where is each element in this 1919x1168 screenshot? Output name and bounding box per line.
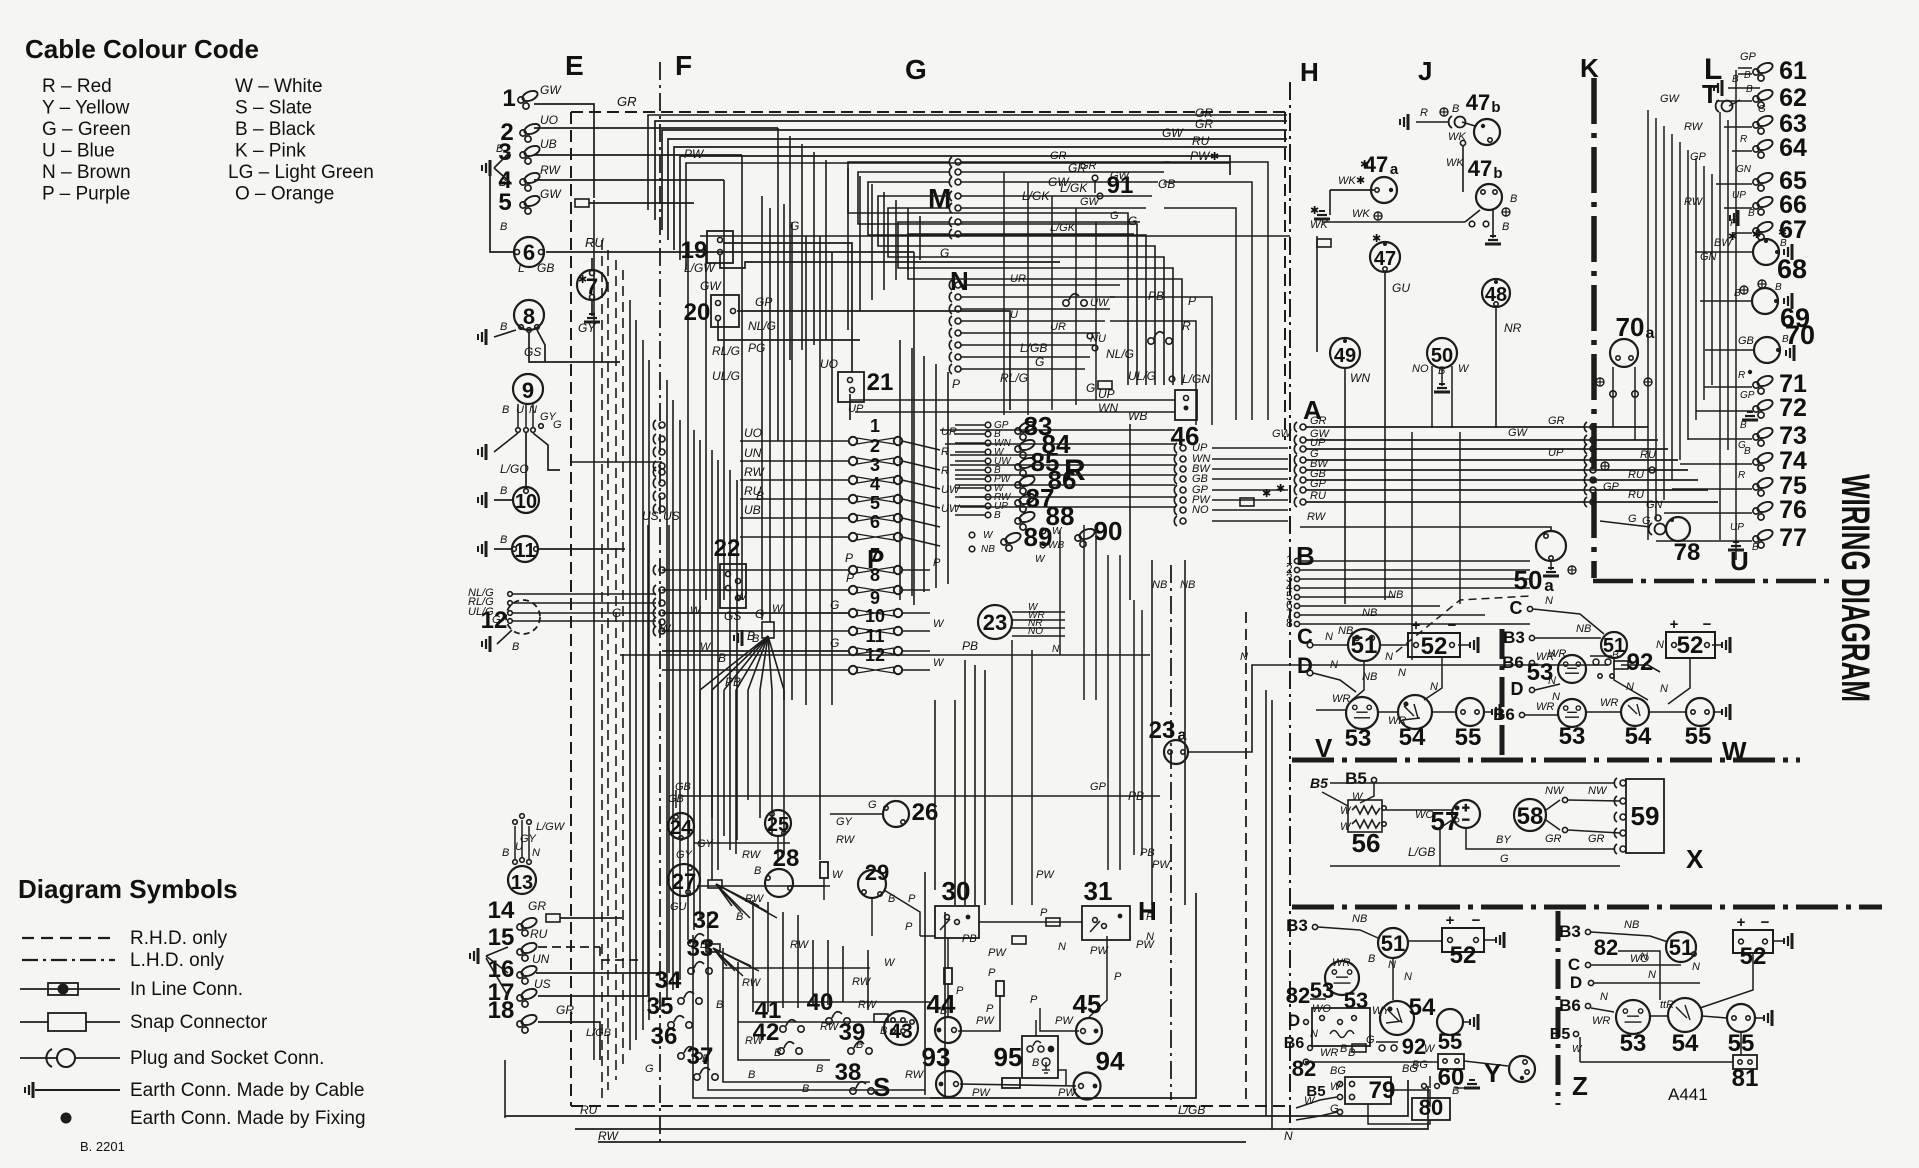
wire P row 2 right [902,461,940,470]
pin 22 a [726,572,731,577]
wire 47a WK left [1330,189,1374,191]
wire N row 3 [961,308,1110,310]
svg-text:RW: RW [858,999,878,1011]
svg-text:R.H.D. only: R.H.D. only [130,928,228,949]
wire M row 1 staircase [848,162,1128,385]
svg-text:B: B [1612,650,1619,661]
svg-text:32: 32 [693,907,720,934]
pin 6 left [515,250,520,255]
svg-text:PB: PB [962,933,977,945]
svg-text:44: 44 [927,989,956,1019]
pin hornY c [1520,1076,1524,1080]
wire G long 462 [571,461,662,463]
wire A bus G cont [1596,459,1678,461]
connector N row 6 [949,340,961,350]
legend symbol snap connector [48,1013,86,1031]
wire M row 5 [961,207,1146,209]
wire 30 lever [940,919,950,930]
connector 4 [520,171,541,191]
legend symbol snap conn wire [20,1021,120,1023]
pin 49 top [1343,339,1347,343]
wire 31 lever [1090,921,1100,932]
motor 28 [765,869,793,897]
wire bottom bus 1 [505,1080,1408,1116]
pin 8 a [519,325,524,330]
wire lamp 74 feed [1738,463,1752,465]
wire RU bus top [674,147,1287,250]
bulb 95 [1042,1058,1050,1073]
svg-text:30: 30 [942,876,971,906]
svg-text:Earth Conn. Made by Cable: Earth Conn. Made by Cable [130,1080,364,1101]
motor 24 [668,813,694,839]
regulator 54 Z [1668,998,1702,1032]
wire fan drop 7 [783,690,785,854]
wire H-feed vertical 7 [1133,600,1135,855]
wire 56 to 57 [1386,809,1452,811]
svg-text:GP: GP [1740,390,1755,401]
lamp 67 [1753,220,1774,240]
pin 47b2 a [1481,190,1485,194]
wire B5X down [1360,783,1374,803]
connector 46 bus BW [1174,464,1186,474]
svg-text:21: 21 [867,369,894,396]
pin 12 UL/G [508,611,513,616]
wire staircase vertical 7 [871,184,873,300]
svg-text:54: 54 [1399,724,1426,751]
wire A bus RU cont [1596,501,1718,503]
svg-text:LG – Light Green: LG – Light Green [228,162,374,183]
svg-text:L/GB: L/GB [1178,1103,1205,1117]
wire staircase vertical b 2 [907,208,909,270]
svg-text:55: 55 [1455,724,1482,751]
pin R bank 7 [985,485,991,491]
wire P row 10 left [662,630,849,632]
svg-text:L/GK: L/GK [1022,189,1050,203]
pin 50a bottom [1549,556,1553,560]
svg-text:✱: ✱ [1752,229,1761,241]
connector 89 [1001,531,1022,551]
svg-text:NO: NO [1192,504,1209,516]
wire GR2 bus top [662,130,1287,230]
pin 7 top [590,271,595,276]
svg-text:L/GB: L/GB [1020,341,1047,355]
svg-text:U – Blue: U – Blue [42,141,115,162]
svg-text:3: 3 [870,455,880,475]
connector M row 5 [949,203,961,213]
svg-text:R: R [1740,134,1747,145]
wire vertical bundle 16 [711,450,713,880]
wire comp19 out [723,243,852,372]
connector M row 4 [949,191,961,201]
svg-text:P: P [908,893,916,905]
svg-text:A441: A441 [1668,1085,1708,1104]
wire PB long [620,654,1150,656]
earth T [1714,80,1722,96]
svg-text:Y – Yellow: Y – Yellow [42,98,130,119]
wire 57 down [1440,820,1452,866]
wire vertical bundle 13 [693,430,695,930]
svg-text:P: P [905,921,913,933]
wire A bus GB [1306,479,1584,481]
wire B6 to 53V [1316,709,1346,711]
wire L column vertical 5 [1687,150,1689,440]
svg-text:GP: GP [1603,481,1620,493]
wire P row 5 left [740,517,849,519]
wire mid vertical 2 [923,356,925,592]
svg-text:B: B [502,404,509,416]
lamp 93 [936,1071,962,1097]
wire P row 5 right [902,518,940,527]
wire 29 to 30 [920,935,935,937]
svg-text:13: 13 [511,872,533,894]
connector M row 1 [949,157,961,167]
pin 70a right [1629,356,1633,360]
wire 47b2 earth [1492,210,1494,238]
wire 58 GR out [1568,830,1620,833]
wire G-field vertical 0 [761,196,763,620]
pin 55V a [1461,710,1465,714]
svg-text:C: C [1510,598,1523,618]
connector 88 [1015,510,1036,530]
wire fan drop 5 [759,690,761,818]
pin 80 top a [1422,1084,1427,1089]
svg-text:✱: ✱ [1372,233,1381,245]
svg-text:NB: NB [1576,623,1591,635]
wire S lattice 1 [723,967,870,969]
svg-text:B: B [1032,1057,1039,1069]
lamp 44 [935,1017,961,1043]
wire 47 down [1384,272,1386,600]
wire lamp 66 feed [1738,207,1752,209]
pin B5 Z [1573,1031,1578,1036]
svg-text:W: W [832,869,844,881]
switch 19 [707,231,733,263]
svg-text:55: 55 [1438,1029,1462,1054]
svg-text:77: 77 [1779,524,1807,552]
pin 47b1 c [1460,140,1465,145]
svg-text:GW: GW [1272,428,1293,440]
wire vertical bundle 9 [666,380,668,1000]
wire lamp 74 branch [1680,463,1738,465]
svg-text:a: a [1646,325,1655,342]
wire 46 bus UP [1212,447,1288,449]
wire fan drop 4 [747,690,749,800]
svg-text:RW: RW [836,834,856,846]
snap connector PW 46 [1240,498,1254,506]
svg-text:P: P [1730,218,1737,229]
wire P row 4 left [740,498,849,500]
pin 30 b [955,920,960,925]
wire 30 down [947,938,949,968]
switch P row 2 [849,457,902,465]
circled plus 50a [1568,566,1576,574]
svg-text:64: 64 [1779,134,1807,162]
svg-text:N: N [1284,1129,1293,1143]
pin GN L [1655,515,1661,521]
svg-text:B: B [1296,541,1315,571]
wire 46 bus [1212,520,1288,522]
wire comp9 pa [517,404,519,427]
svg-text:GR: GR [1068,161,1086,175]
wire 51W down [1614,658,1648,700]
pin 55Z a [1732,1016,1736,1020]
motor 27 [668,864,700,896]
wire A bus K crossing 6 [1584,489,1596,491]
svg-text:55: 55 [1685,723,1712,750]
svg-text:B: B [1782,334,1789,345]
wire M row 2 staircase [858,172,1137,385]
wire 59 top feed [1330,782,1614,784]
wire A bus GW cont [1596,439,1658,441]
wire comp9 u down [525,433,527,486]
svg-text:U: U [1010,309,1018,321]
wire B bank 6 [1300,605,1440,607]
svg-text:61: 61 [1779,57,1807,85]
svg-text:B: B [512,641,519,653]
svg-text:b: b [1491,99,1500,116]
pin 47b2 b [1493,190,1497,194]
wire N row 6 [961,344,1095,346]
pin Y53 b [1338,1020,1343,1025]
pin 48 bottom [1494,302,1498,306]
lamp 75 [1753,476,1774,496]
svg-text:B5: B5 [1550,1026,1571,1043]
svg-text:W: W [983,530,994,541]
svg-text:B3: B3 [1559,922,1581,941]
connector column row y466 [653,461,665,471]
wire R bank 3 [955,451,985,453]
svg-text:NW: NW [1588,785,1608,797]
pin Y53 a [1320,1016,1325,1021]
pin 94 right [1093,1084,1098,1089]
fusebox 59 [1626,779,1664,853]
legend symbol inline connector [48,983,78,995]
wire P row 7 left [662,569,849,571]
svg-text:B: B [500,221,507,233]
wire 53W to 54W [1586,711,1621,713]
solenoid 51 W [1601,632,1627,658]
wire comp7 bottom [591,300,593,316]
svg-text:NB: NB [981,544,995,555]
svg-text:UL/G: UL/G [1128,369,1156,383]
wire staircase vertical 0 [777,128,779,441]
wire A bus GW [1306,439,1584,441]
svg-text:Y: Y [1484,1058,1501,1088]
svg-text:UP: UP [1730,522,1744,533]
connector 46 bus NO [1174,505,1186,515]
wire 23 NR [1012,627,1065,629]
dynamo 53 W lower internals [1564,706,1581,717]
relay 6 [514,237,544,267]
svg-text:B: B [718,651,726,665]
wire R bank 4 [955,460,985,462]
svg-text:a: a [1390,161,1399,178]
pin 19 b [718,250,723,255]
connector column row y590 [653,585,665,595]
wire bottom bus 3 [598,1141,1246,1143]
wire S harness 1 [708,912,925,1090]
svg-text:UO: UO [744,426,762,440]
wire comp20 out [737,311,1010,410]
svg-text:UP: UP [1548,447,1564,459]
connector 17 [517,987,538,1007]
svg-text:80: 80 [1419,1095,1443,1120]
wire H-feed vertical 8 [1141,610,1143,855]
frame line F boundary dash-dot [659,62,661,1145]
wire US vertical 2 [668,525,670,973]
wire S harness 11 [842,946,844,1002]
svg-text:PW: PW [1152,859,1171,871]
svg-text:G: G [645,1063,654,1075]
wire L column vertical 3 [1671,134,1673,480]
pin 92W a [1598,674,1602,678]
wire S harness 14 [964,660,966,905]
wire row11 long [662,650,849,652]
svg-text:2: 2 [870,436,880,456]
svg-text:62: 62 [1779,84,1807,112]
svg-text:UL/G: UL/G [468,606,494,618]
earth comp15-17 [470,948,478,964]
wire comp15 dashed bend [600,947,640,960]
wire 82Z down [1636,951,1660,1000]
svg-text:47: 47 [1466,90,1490,115]
earth 52 Z [1784,933,1792,949]
svg-text:B: B [1740,420,1747,431]
wire comp5 GW out [589,202,694,204]
svg-text:4: 4 [870,474,880,494]
switch 37 [694,1068,718,1080]
svg-text:49: 49 [1334,345,1356,367]
connector column row y483 [653,478,665,488]
wire A bus K crossing 5 [1584,479,1596,481]
connector column row y570 [653,565,665,575]
connector 59 pin 1 [1614,778,1626,788]
wire fan drop 6 [771,690,773,836]
switch 32 [688,934,712,946]
wire comp11 out [539,548,625,550]
svg-text:58: 58 [1517,803,1544,830]
wire M row 2 [961,171,1164,173]
wire 52Z earth [1773,940,1784,942]
wire 26 left [830,813,883,815]
svg-text:GW: GW [1660,93,1681,105]
svg-text:GW: GW [540,187,562,201]
pin 31 b [1102,924,1107,929]
wire vertical bundle 17 [717,460,719,870]
switch 79 [1345,1077,1391,1104]
wire B bank 8 [1300,623,1530,625]
junction box Y53 [1312,1008,1370,1046]
svg-text:B: B [700,939,707,951]
svg-text:+: + [1737,914,1746,931]
wire S harness 13 [954,700,956,905]
pin 93 left [939,1082,944,1087]
wire N vertical J2 [1459,432,1461,604]
wire lamp 77 feed [1738,540,1752,542]
wire earth to 15 [486,947,508,956]
svg-text:GR: GR [1548,415,1565,427]
snap connector 23a [1614,661,1628,669]
wire L column vertical 7 [1703,166,1705,400]
svg-text:NL/G: NL/G [1106,347,1134,361]
svg-text:6: 6 [523,240,535,265]
wire 58 NW [1546,800,1560,810]
wire 50 earth [1441,368,1443,386]
svg-text:GP: GP [1740,51,1757,63]
circled plus 70a l [1596,378,1604,386]
svg-text:B: B [1368,953,1375,965]
pin 78 top [1670,518,1674,522]
wire G-H bus 6 [960,496,1175,498]
svg-text:RU: RU [1310,490,1326,502]
lamp 45 [1076,1018,1102,1044]
wire GW bus top [668,139,1287,240]
svg-text:R – Red: R – Red [42,76,112,97]
wire 57 BY [1466,828,1614,849]
frame RHD dashed bottom [571,1105,1286,1107]
connector 46 bus UP [1174,443,1186,453]
unit 78 [1666,517,1690,541]
solenoid 51 Z [1666,932,1696,962]
svg-text:82: 82 [1286,983,1310,1008]
svg-text:R: R [1738,370,1745,381]
frame bar W-X separator horizontal [1292,758,1800,763]
svg-text:Earth Conn. Made by Fixing: Earth Conn. Made by Fixing [130,1108,366,1129]
snap connector 47a [1317,239,1331,247]
svg-text:GB: GB [1738,335,1754,347]
earth 77 [1728,542,1744,550]
svg-text:22: 22 [714,535,741,562]
wire L column vertical 11 [1735,70,1737,560]
wire T [1728,87,1760,89]
wire A bus K crossing 4 [1584,469,1596,471]
wire lamp 71 feed [1738,386,1752,388]
wire S harness 7 [797,915,799,1008]
pin 51V b [1370,636,1375,641]
wire 68 feed [1695,251,1753,253]
wire G-H bus 2 [950,454,1175,456]
svg-text:Z: Z [1572,1071,1588,1101]
svg-text:N: N [1600,991,1608,1003]
svg-text:11: 11 [514,540,535,562]
svg-text:N: N [1656,639,1664,651]
wire N row 4 [961,320,1105,322]
wire S harness 6 [782,912,784,1008]
wire R-feed vertical 4 [1095,222,1097,400]
unit 70a [1610,339,1638,367]
switch 42 [778,1042,802,1054]
svg-text:L/GO: L/GO [500,462,529,476]
wire staircase vertical 5 [847,168,849,330]
wire comp8 gy [537,330,545,362]
wire N extension 0 [1110,297,1212,425]
svg-text:90: 90 [1094,516,1123,546]
wire R-feed vertical 3 [1075,208,1077,405]
pin 28 a [766,876,770,880]
svg-text:L/GW: L/GW [536,821,566,833]
svg-text:C: C [1568,955,1580,974]
pin B bank 7 [1294,612,1299,617]
switch P row 10 [849,627,902,635]
svg-text:51: 51 [1381,931,1405,956]
pin 68 top [1764,239,1768,243]
connector column row y613 [653,608,665,618]
wire M row 4 staircase [878,196,1155,385]
connector column row y472 [653,467,665,477]
fuse 81 [1733,1055,1757,1069]
earth 47b2 [1485,236,1501,244]
wire 79 W in [1296,1097,1337,1108]
